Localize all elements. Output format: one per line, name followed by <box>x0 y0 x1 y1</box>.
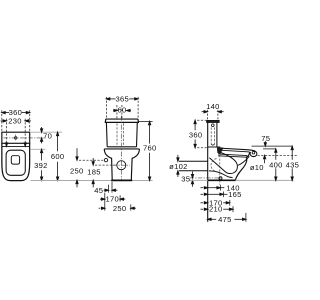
svg-text:35: 35 <box>181 175 190 184</box>
svg-text:70: 70 <box>43 132 52 141</box>
svg-text:475: 475 <box>218 215 232 224</box>
svg-text:392: 392 <box>34 161 48 170</box>
svg-text:365: 365 <box>116 95 130 104</box>
svg-text:760: 760 <box>143 144 157 153</box>
svg-text:60: 60 <box>117 105 126 114</box>
svg-text:45: 45 <box>94 186 103 195</box>
svg-text:ø10: ø10 <box>250 163 264 172</box>
svg-text:435: 435 <box>286 160 300 169</box>
svg-text:170: 170 <box>106 195 120 204</box>
svg-text:165: 165 <box>228 190 242 199</box>
svg-text:600: 600 <box>51 152 65 161</box>
svg-text:ø102: ø102 <box>169 162 187 171</box>
svg-text:400: 400 <box>269 160 283 169</box>
svg-text:185: 185 <box>87 168 101 177</box>
svg-text:75: 75 <box>261 134 270 143</box>
svg-text:250: 250 <box>70 166 84 175</box>
svg-text:360: 360 <box>189 130 203 139</box>
svg-text:210: 210 <box>209 205 223 214</box>
svg-text:140: 140 <box>206 102 220 111</box>
svg-text:230: 230 <box>8 116 22 125</box>
svg-text:250: 250 <box>113 204 127 213</box>
